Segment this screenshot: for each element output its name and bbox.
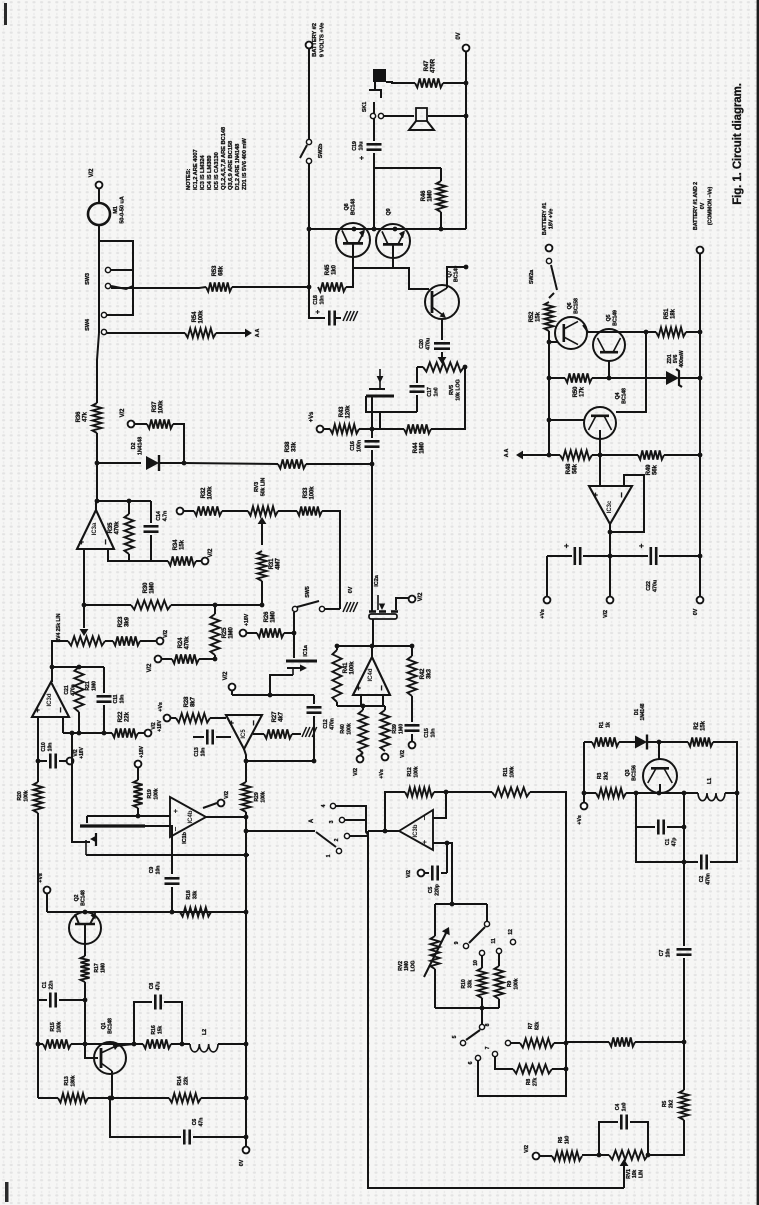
svg-text:+Vs: +Vs — [158, 702, 164, 712]
svg-text:C5: C5 — [428, 887, 434, 894]
svg-text:470n: 470n — [706, 873, 712, 884]
svg-text:+18V: +18V — [139, 745, 145, 757]
wire — [128, 501, 130, 514]
bus above IC3d — [52, 666, 104, 668]
capacitor C15 — [405, 725, 420, 730]
capacitor C4 bridge — [599, 1122, 618, 1155]
svg-text:100k: 100k — [199, 310, 205, 324]
resistor R7 — [520, 1038, 554, 1047]
RV1 value — [626, 1169, 644, 1179]
svg-text:Fig. 1. Circuit diagram.: Fig. 1. Circuit diagram. — [732, 83, 744, 205]
wire — [434, 969, 436, 1008]
wire — [38, 1097, 58, 1099]
svg-text:R54: R54 — [192, 311, 198, 322]
capacitor C14 — [144, 526, 159, 531]
terminal +Vs — [382, 754, 389, 761]
svg-text:0V: 0V — [700, 202, 706, 209]
R50 value — [573, 386, 586, 397]
svg-text:82k: 82k — [535, 1022, 541, 1031]
svg-text:180k: 180k — [71, 1075, 77, 1086]
svg-text:C10: C10 — [41, 742, 47, 751]
junction — [463, 365, 468, 370]
svg-text:BC148: BC148 — [622, 388, 628, 404]
contact — [484, 921, 489, 926]
junction — [36, 759, 41, 764]
svg-text:LIN: LIN — [638, 1170, 644, 1178]
svg-text:V/2: V/2 — [147, 663, 153, 672]
wire — [105, 640, 113, 642]
svg-text:R41: R41 — [343, 662, 349, 673]
wire — [434, 904, 436, 936]
battery 0V label — [693, 182, 713, 230]
svg-text:R45: R45 — [325, 264, 331, 275]
C2 value — [699, 873, 712, 884]
R42 value — [420, 668, 433, 679]
svg-text:SW5: SW5 — [305, 586, 311, 597]
svg-text:22n: 22n — [49, 981, 55, 990]
terminal V/2 — [218, 800, 225, 807]
wire — [431, 367, 465, 429]
svg-text:+: + — [76, 539, 86, 544]
svg-text:R5: R5 — [662, 1101, 668, 1108]
C21 label — [64, 684, 77, 695]
resistor R34 — [168, 556, 196, 565]
svg-text:–: – — [100, 539, 111, 544]
C6 value — [192, 1118, 205, 1127]
R47 value — [424, 58, 437, 73]
R25 value — [222, 627, 235, 639]
svg-text:100k: 100k — [510, 766, 516, 777]
junction — [370, 427, 375, 432]
capacitor C5 wire — [425, 872, 429, 874]
wire — [150, 501, 152, 523]
terminal V/2 — [409, 742, 416, 749]
junction — [170, 910, 175, 915]
junction — [682, 860, 687, 865]
svg-text:BC158: BC158 — [574, 298, 580, 314]
bus +Vs y=912 — [47, 911, 246, 913]
svg-text:–: – — [55, 707, 66, 712]
svg-text:SW2b: SW2b — [318, 143, 324, 158]
svg-text:R38: R38 — [285, 441, 291, 452]
svg-text:BC148: BC148 — [108, 1018, 114, 1034]
mid rail with smoothing capacitors — [547, 555, 572, 557]
svg-text:400mW: 400mW — [679, 350, 685, 367]
wire — [222, 510, 248, 512]
op-amp IC5 — [226, 715, 262, 749]
junction — [547, 453, 552, 458]
wire — [386, 82, 415, 83]
C19 value — [352, 141, 365, 151]
resistor R45 — [318, 282, 346, 291]
RV5 wiper arrow — [438, 357, 447, 364]
svg-text:V/2: V/2 — [224, 791, 230, 799]
junction — [268, 693, 273, 698]
contact B — [505, 1040, 510, 1045]
R21 value — [85, 681, 98, 691]
wire — [46, 894, 48, 912]
resistor R18 — [180, 907, 211, 916]
terminal 0V — [697, 597, 704, 604]
resistor R6 — [552, 1151, 582, 1160]
svg-text:R35: R35 — [108, 522, 114, 533]
R35 value — [108, 521, 121, 535]
resistor R37 — [147, 419, 173, 428]
svg-text:(COMMON –Ve): (COMMON –Ve) — [707, 187, 713, 226]
resistor R19 — [133, 780, 142, 808]
battery #1 label — [542, 203, 555, 235]
resistor R42 — [407, 656, 416, 696]
wire — [366, 396, 417, 412]
svg-text:R17: R17 — [94, 963, 100, 972]
junction — [244, 910, 249, 915]
terminal battery #1 + — [546, 245, 553, 252]
svg-text:2: 2 — [334, 838, 340, 841]
svg-text:+: + — [590, 492, 600, 497]
svg-text:470n: 470n — [330, 718, 336, 729]
capacitor C18 (electrolytic) — [329, 311, 334, 326]
svg-text:NOTES:: NOTES: — [186, 169, 192, 190]
capacitor (electrolytic) — [575, 547, 580, 565]
capacitor C1 wire — [38, 999, 47, 1001]
wire — [103, 667, 105, 693]
junction — [77, 665, 82, 670]
svg-text:11: 11 — [491, 938, 497, 943]
svg-text:12: 12 — [508, 929, 514, 935]
svg-text:0V: 0V — [693, 608, 699, 615]
capacitor C22 470u — [651, 547, 656, 565]
svg-text:BC148: BC148 — [81, 890, 87, 906]
MOSFET IC2b — [366, 369, 394, 396]
potentiometer RV1 10k LIN — [609, 1150, 648, 1159]
wire output bases bus — [353, 244, 393, 268]
wire — [135, 423, 147, 425]
svg-text:+Vs: +Vs — [577, 815, 583, 825]
svg-text:IC3 IS LM324: IC3 IS LM324 — [200, 155, 206, 190]
wire — [51, 641, 53, 667]
svg-text:3k9: 3k9 — [125, 616, 131, 626]
wire contacts 3-4 — [336, 806, 366, 820]
resistor R4 — [609, 1037, 635, 1046]
svg-text:1M0: 1M0 — [404, 961, 410, 971]
resistor R14 — [169, 1093, 201, 1102]
resistor R16 — [143, 1039, 171, 1048]
terminal V/2 — [128, 421, 135, 428]
wire — [549, 377, 565, 379]
junction — [312, 759, 317, 764]
bus below RV2 — [435, 1007, 499, 1009]
wire — [683, 1042, 685, 1090]
R49 value — [646, 464, 659, 475]
resistor R36 — [92, 403, 101, 433]
R44 value — [413, 442, 426, 454]
wire — [396, 598, 408, 610]
R45 value — [325, 264, 338, 275]
junction — [213, 657, 218, 662]
wire — [371, 429, 373, 438]
junction — [698, 330, 703, 335]
wire — [313, 716, 315, 761]
arrow AA — [245, 329, 252, 338]
svg-text:R9: R9 — [507, 981, 513, 988]
R53 value — [212, 265, 225, 276]
junction — [82, 603, 87, 608]
MOSFET inverter IC1a — [286, 661, 317, 675]
C5 value — [428, 884, 441, 895]
R26 value — [264, 611, 277, 623]
wire to - input — [433, 792, 446, 818]
svg-text:10n: 10n — [120, 695, 126, 704]
capacitor C6 — [184, 1130, 189, 1145]
terminal — [145, 730, 152, 737]
wire — [171, 887, 173, 912]
wire Q1 collector — [111, 1071, 113, 1098]
wire — [336, 646, 338, 650]
junction — [698, 453, 703, 458]
wire — [464, 366, 465, 368]
junction — [361, 704, 366, 709]
wire — [88, 1097, 110, 1099]
wire — [231, 691, 233, 695]
svg-text:RV3: RV3 — [254, 482, 260, 492]
svg-text:Q4: Q4 — [615, 392, 621, 399]
wire — [85, 1043, 134, 1045]
notes text block — [186, 126, 248, 190]
resistor R28 — [176, 713, 210, 722]
terminal +18V — [240, 630, 247, 637]
junction — [393, 227, 398, 232]
svg-text:BATTERY #1 AND 2: BATTERY #1 AND 2 — [693, 182, 699, 230]
wire — [360, 753, 363, 755]
wire — [270, 675, 293, 695]
svg-text:1M0: 1M0 — [92, 681, 98, 691]
svg-text:470R: 470R — [431, 58, 437, 73]
wire — [138, 732, 144, 734]
junction — [136, 814, 141, 819]
R2 value — [694, 720, 707, 730]
svg-text:+18V: +18V — [244, 613, 250, 626]
wire — [293, 612, 295, 633]
junction — [564, 1041, 569, 1046]
junction — [682, 791, 687, 796]
svg-text:R24: R24 — [178, 637, 184, 648]
switch A contact 1 — [336, 848, 341, 853]
junction — [70, 731, 75, 736]
RV1 wiper stem — [623, 1165, 625, 1188]
contact 8 — [479, 1024, 484, 1029]
svg-text:1n0: 1n0 — [434, 387, 440, 396]
R13 value — [64, 1075, 77, 1086]
resistor R51 — [656, 327, 686, 336]
wire — [96, 463, 98, 501]
resistor R54 — [185, 328, 216, 337]
svg-text:+Vs: +Vs — [309, 411, 315, 422]
wire — [98, 189, 100, 203]
svg-text:C9: C9 — [149, 867, 155, 874]
switch blade — [466, 1030, 480, 1040]
transistor Q3 BC158 — [643, 759, 677, 793]
svg-text:+: + — [171, 808, 180, 813]
svg-text:R52: R52 — [529, 311, 535, 322]
svg-text:R34: R34 — [173, 539, 179, 550]
ground — [302, 727, 317, 737]
svg-text:V/2: V/2 — [406, 870, 412, 878]
terminal +Vs — [44, 887, 51, 894]
junction — [182, 461, 187, 466]
capacitor C7 — [677, 949, 692, 954]
svg-text:R8: R8 — [526, 1079, 532, 1086]
C17 value — [427, 387, 440, 397]
R40 value — [340, 723, 353, 735]
svg-text:C4: C4 — [615, 1104, 621, 1111]
svg-text:Q5: Q5 — [606, 314, 612, 321]
svg-text:C22: C22 — [646, 581, 652, 591]
capacitor C1 47p — [658, 820, 663, 835]
junction — [127, 499, 132, 504]
R32 value — [201, 486, 214, 500]
diode D2 1N4148 — [146, 455, 159, 471]
junction — [244, 1135, 249, 1140]
junction — [564, 1067, 569, 1072]
wire — [306, 463, 372, 465]
svg-text:R16: R16 — [151, 1025, 157, 1034]
wire + input — [433, 842, 447, 844]
supply bus from SW2b — [309, 228, 466, 230]
wire — [486, 904, 488, 921]
SK1 contact — [378, 113, 383, 118]
R11 value — [503, 766, 516, 777]
wire — [417, 366, 423, 368]
wire — [160, 462, 184, 464]
Q1 label — [101, 1018, 114, 1034]
wire — [609, 556, 611, 596]
junction — [260, 603, 265, 608]
wire — [292, 733, 301, 735]
junction — [50, 665, 55, 670]
resistor R21 1M0 — [74, 667, 83, 712]
svg-text:ZD1 IS 5V6 400 mW: ZD1 IS 5V6 400 mW — [242, 138, 248, 190]
inductor L1 — [698, 793, 725, 801]
wire — [203, 803, 217, 808]
wire — [150, 535, 152, 561]
junction — [682, 825, 687, 830]
svg-text:M1: M1 — [113, 206, 119, 214]
contact 11 — [496, 948, 501, 953]
wire Q3 collector — [658, 742, 660, 760]
capacitor C1 (osc) branch — [636, 793, 655, 827]
RV3 wiper — [261, 523, 263, 545]
transistor Q6 BC158 — [555, 317, 587, 349]
svg-text:1M0: 1M0 — [428, 190, 434, 202]
junction — [244, 759, 249, 764]
wire — [97, 500, 151, 502]
junction — [444, 790, 449, 795]
R38 value — [285, 441, 298, 452]
svg-text:–: – — [170, 826, 180, 831]
resistor R50 — [565, 373, 592, 382]
wire — [679, 377, 700, 379]
wire to IC1b gate — [72, 733, 90, 842]
svg-text:RV1: RV1 — [626, 1169, 632, 1179]
wire — [498, 999, 500, 1008]
wire — [196, 560, 201, 562]
svg-text:R19: R19 — [147, 789, 153, 798]
R16 value — [151, 1025, 164, 1034]
transistor Q4 BC148 — [584, 407, 616, 439]
svg-text:R21: R21 — [85, 681, 91, 690]
svg-text:100n: 100n — [357, 440, 363, 452]
wire Q7 collector — [447, 267, 466, 288]
svg-text:1k0: 1k0 — [332, 264, 338, 274]
junction — [607, 376, 612, 381]
svg-text:R51: R51 — [664, 308, 670, 319]
wire — [481, 1008, 483, 1024]
svg-text:+: + — [359, 156, 366, 160]
C7 value — [659, 949, 672, 958]
wire — [86, 816, 88, 823]
wire left rail — [37, 813, 39, 1098]
wire — [552, 1068, 566, 1070]
wire — [549, 341, 558, 343]
svg-text:C7: C7 — [659, 950, 665, 957]
capacitor C16 — [365, 441, 380, 446]
wire — [583, 325, 646, 332]
svg-text:R28: R28 — [184, 696, 190, 707]
resistor R38 — [278, 459, 306, 468]
svg-text:10: 10 — [473, 960, 479, 966]
transistor Q8 BC148 — [336, 223, 370, 257]
battery #2 label — [312, 22, 325, 57]
junction — [657, 791, 662, 796]
svg-text:10k LOG: 10k LOG — [456, 379, 462, 400]
terminal 0V — [463, 45, 470, 52]
wire — [446, 843, 448, 873]
wire — [103, 705, 105, 733]
wire — [360, 695, 362, 706]
switch SW3 — [105, 267, 133, 289]
svg-text:L1: L1 — [707, 778, 713, 784]
svg-text:1N4148: 1N4148 — [640, 703, 646, 720]
wire Q2 base — [84, 925, 86, 956]
svg-text:R49: R49 — [646, 464, 652, 475]
resistor R32 — [194, 506, 222, 515]
resistor R43 — [330, 424, 359, 433]
svg-text:9 VOLTS +Ve: 9 VOLTS +Ve — [319, 22, 325, 57]
svg-text:RV2: RV2 — [398, 961, 404, 971]
wire — [549, 419, 584, 421]
wire — [609, 524, 611, 556]
ground 0V — [343, 602, 358, 612]
svg-text:+Vs: +Vs — [379, 769, 385, 779]
wire — [683, 862, 685, 946]
svg-text:0V: 0V — [456, 32, 462, 39]
wire — [308, 164, 310, 287]
wire — [98, 225, 100, 241]
svg-text:R40: R40 — [340, 724, 346, 734]
resistor R13 — [58, 1093, 88, 1102]
switch SW2a — [546, 258, 557, 298]
svg-text:IC2a: IC2a — [374, 574, 380, 586]
wire — [371, 450, 373, 464]
svg-text:100k: 100k — [514, 978, 520, 989]
junction — [480, 1006, 485, 1011]
junction — [372, 227, 377, 232]
svg-text:V/2: V/2 — [120, 408, 126, 417]
wire — [84, 982, 86, 1000]
svg-text:4M7: 4M7 — [276, 558, 282, 570]
wire — [648, 741, 688, 743]
svg-text:15k: 15k — [536, 311, 542, 321]
